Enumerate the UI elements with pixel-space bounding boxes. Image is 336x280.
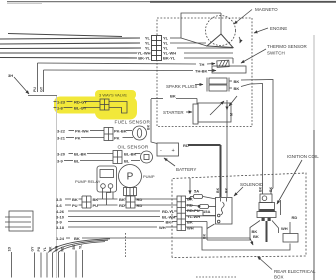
svg-text:BK: BK	[93, 197, 99, 202]
svg-text:BK-YL: BK-YL	[138, 56, 151, 61]
svg-text:BATTERY: BATTERY	[176, 167, 196, 172]
svg-text:BK: BK	[72, 197, 78, 202]
svg-text:PK-WH: PK-WH	[75, 129, 89, 134]
svg-text:BK: BK	[259, 186, 263, 192]
svg-text:15A: 15A	[203, 209, 210, 214]
svg-text:PU: PU	[37, 246, 41, 251]
svg-text:BK: BK	[234, 79, 240, 84]
svg-text:4-26: 4-26	[56, 209, 65, 214]
svg-text:RD: RD	[292, 215, 298, 220]
svg-text:BK: BK	[72, 244, 76, 249]
svg-text:P: P	[127, 172, 134, 183]
svg-text:SWITCH: SWITCH	[267, 51, 285, 56]
svg-text:BL: BL	[74, 159, 80, 164]
svg-text:BL-BK: BL-BK	[74, 152, 87, 157]
svg-text:BK-YL: BK-YL	[163, 56, 176, 61]
svg-text:4-6: 4-6	[56, 203, 63, 208]
svg-text:BK: BK	[269, 186, 273, 192]
svg-text:PU: PU	[72, 203, 78, 208]
svg-text:RD: RD	[119, 203, 125, 208]
svg-text:3-20: 3-20	[57, 152, 66, 157]
svg-text:1-8: 1-8	[57, 106, 64, 111]
svg-text:OIL SENSOR: OIL SENSOR	[118, 145, 149, 150]
svg-text:BL: BL	[124, 159, 130, 164]
svg-text:RD: RD	[61, 246, 65, 251]
svg-text:TH-BK: TH-BK	[195, 69, 208, 74]
svg-text:WH: WH	[281, 226, 288, 231]
svg-text:WH: WH	[159, 225, 166, 230]
svg-text:3-9: 3-9	[57, 159, 64, 164]
svg-text:WH: WH	[187, 225, 194, 230]
svg-text:RD: RD	[137, 197, 143, 202]
svg-text:YL: YL	[79, 245, 83, 249]
svg-text:1-23: 1-23	[57, 100, 66, 105]
svg-text:3-5: 3-5	[56, 197, 63, 202]
svg-text:SOLENOID: SOLENOID	[240, 182, 264, 187]
svg-text:1D: 1D	[8, 247, 12, 252]
svg-text:3-9: 3-9	[56, 220, 63, 225]
svg-text:GY: GY	[31, 246, 35, 252]
svg-text:PK-BK: PK-BK	[114, 129, 127, 134]
svg-text:RD: RD	[187, 202, 193, 207]
svg-text:MAGNETO: MAGNETO	[255, 7, 278, 12]
svg-text:BK: BK	[187, 220, 193, 225]
svg-text:RD-YL: RD-YL	[162, 209, 175, 214]
svg-text:FUEL SENSOR: FUEL SENSOR	[115, 120, 151, 125]
svg-text:3-21: 3-21	[57, 136, 66, 141]
svg-text:YL: YL	[43, 247, 47, 251]
svg-text:BK: BK	[234, 86, 240, 91]
svg-text:BK: BK	[166, 220, 172, 225]
svg-text:BK: BK	[119, 197, 125, 202]
svg-text:BK: BK	[147, 124, 151, 130]
svg-text:REAR ELECTRICAL: REAR ELECTRICAL	[274, 269, 316, 274]
svg-text:BK: BK	[253, 234, 259, 239]
svg-text:PU: PU	[93, 203, 99, 208]
svg-text:M: M	[230, 113, 234, 116]
svg-text:RD-GY: RD-GY	[74, 100, 87, 105]
svg-text:3H: 3H	[8, 73, 13, 78]
svg-text:PK: PK	[75, 136, 81, 141]
svg-text:WH: WH	[55, 245, 59, 251]
svg-text:3-22: 3-22	[57, 129, 66, 134]
svg-text:BK: BK	[225, 187, 229, 193]
svg-text:PUMP RELAY: PUMP RELAY	[75, 179, 101, 184]
svg-text:PU: PU	[33, 87, 37, 92]
svg-text:GY: GY	[40, 86, 44, 92]
svg-text:IGNITION COIL: IGNITION COIL	[287, 154, 319, 159]
svg-text:RD-PU: RD-PU	[187, 208, 200, 213]
svg-text:PK: PK	[114, 136, 120, 141]
svg-text:YL-WH: YL-WH	[187, 214, 200, 219]
svg-text:STARTER: STARTER	[163, 110, 184, 115]
svg-text:SPARK PLUGS: SPARK PLUGS	[166, 84, 197, 89]
svg-text:RD: RD	[137, 203, 143, 208]
svg-text:TH: TH	[199, 62, 204, 67]
svg-text:BK: BK	[187, 197, 193, 202]
svg-text:3 WAYS VALVE: 3 WAYS VALVE	[99, 93, 127, 98]
svg-text:RD: RD	[183, 143, 189, 148]
svg-text:PUMP: PUMP	[143, 174, 155, 179]
svg-text:5A: 5A	[194, 189, 199, 194]
svg-text:BOX: BOX	[274, 275, 284, 280]
svg-text:-: -	[160, 148, 162, 154]
svg-text:1-24: 1-24	[56, 236, 65, 241]
svg-text:BK: BK	[216, 187, 220, 193]
svg-text:BK: BK	[170, 94, 176, 99]
svg-text:BL-GY: BL-GY	[74, 106, 87, 111]
svg-text:BL-BK: BL-BK	[124, 152, 137, 157]
svg-text:BK: BK	[49, 246, 53, 251]
svg-text:BK: BK	[203, 233, 207, 239]
svg-text:THERMO SENSOR: THERMO SENSOR	[267, 44, 308, 49]
svg-text:ENGINE: ENGINE	[270, 26, 287, 31]
svg-text:3-18: 3-18	[56, 225, 65, 230]
svg-text:+: +	[172, 148, 175, 154]
svg-text:BK: BK	[74, 236, 80, 241]
